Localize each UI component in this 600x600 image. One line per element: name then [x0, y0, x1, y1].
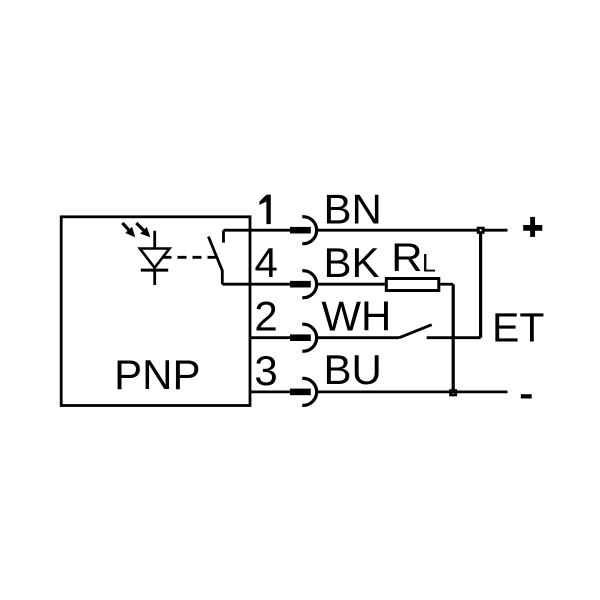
photodiode anode lead [153, 231, 156, 249]
pin 3 connector socket arc [302, 378, 316, 405]
pin 3 wire to minus [318, 390, 508, 393]
svg-text:ET: ET [492, 305, 544, 351]
dashed actuation link [163, 256, 216, 259]
pin 3 connector plug [290, 389, 311, 396]
svg-text:L: L [422, 250, 436, 278]
svg-text:BU: BU [324, 346, 382, 393]
pin 4 connector socket arc [302, 271, 316, 298]
photodiode D1 triangle [140, 249, 170, 268]
pin 2 wire [250, 336, 291, 339]
pin 2 connector socket arc [302, 324, 316, 351]
pin 2 connector plug [290, 334, 311, 341]
wire resistor to down line [440, 283, 453, 286]
ET switch lever [399, 325, 432, 338]
plus terminal [523, 217, 542, 237]
pin 4 wire [222, 283, 291, 286]
svg-text:4: 4 [255, 239, 278, 286]
junction node at plus rail [477, 227, 485, 234]
minus terminal [521, 394, 532, 398]
pin 1 connector plug [290, 227, 311, 234]
ET switch output wire [427, 336, 481, 339]
resistor RL [386, 279, 439, 291]
internal switch S1 lever [208, 237, 222, 285]
sensor body box [61, 217, 250, 406]
light arrow 1 [122, 223, 135, 237]
svg-text:PNP: PNP [114, 351, 200, 398]
pin number 1 [259, 195, 270, 225]
light arrow 2 [136, 223, 150, 237]
svg-text:WH: WH [321, 292, 391, 339]
svg-text:2: 2 [254, 293, 277, 340]
svg-text:R: R [391, 236, 423, 280]
photodiode cathode bar [141, 269, 168, 272]
load down wire [452, 284, 455, 392]
pin 4 connector plug [290, 281, 311, 288]
pin 1 connector socket arc [302, 217, 316, 244]
pin 3 wire [250, 390, 291, 393]
svg-text:BK: BK [324, 239, 380, 286]
pin 2 wire to ET switch [318, 336, 400, 339]
photodiode cathode lead [153, 270, 156, 285]
pin 1 wire [224, 229, 292, 232]
pin 1 output wire to plus [318, 229, 508, 232]
pin 4 wire to resistor [318, 283, 385, 286]
junction node at minus rail [449, 389, 457, 396]
ET vertical wire [479, 233, 482, 338]
internal switch S1 contact stub [222, 230, 225, 242]
svg-text:BN: BN [324, 186, 382, 233]
svg-text:3: 3 [254, 347, 277, 394]
